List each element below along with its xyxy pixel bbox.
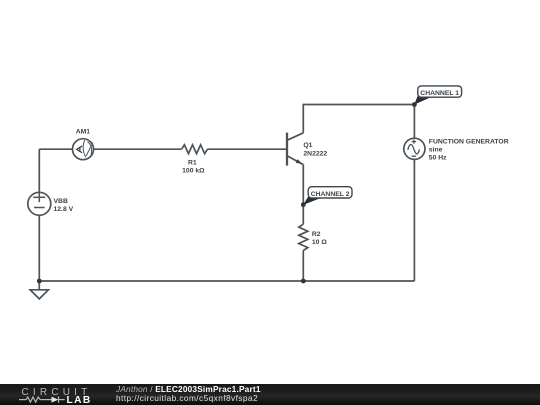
svg-text:CHANNEL 1: CHANNEL 1: [420, 90, 459, 97]
svg-text:sine: sine: [429, 147, 443, 154]
svg-text:FUNCTION GENERATOR: FUNCTION GENERATOR: [429, 139, 509, 146]
svg-text:10 Ω: 10 Ω: [312, 239, 327, 246]
svg-text:50 Hz: 50 Hz: [429, 155, 447, 162]
svg-text:12.8 V: 12.8 V: [54, 206, 74, 213]
svg-text:VBB: VBB: [54, 198, 68, 205]
svg-text:AM1: AM1: [76, 128, 91, 135]
svg-text:100 kΩ: 100 kΩ: [182, 167, 205, 174]
svg-text:2N2222: 2N2222: [303, 151, 327, 158]
svg-text:R2: R2: [312, 231, 321, 238]
svg-text:Q1: Q1: [303, 142, 312, 149]
svg-text:LAB: LAB: [67, 395, 92, 405]
svg-text:R1: R1: [188, 159, 197, 166]
svg-text:CHANNEL 2: CHANNEL 2: [311, 191, 350, 198]
